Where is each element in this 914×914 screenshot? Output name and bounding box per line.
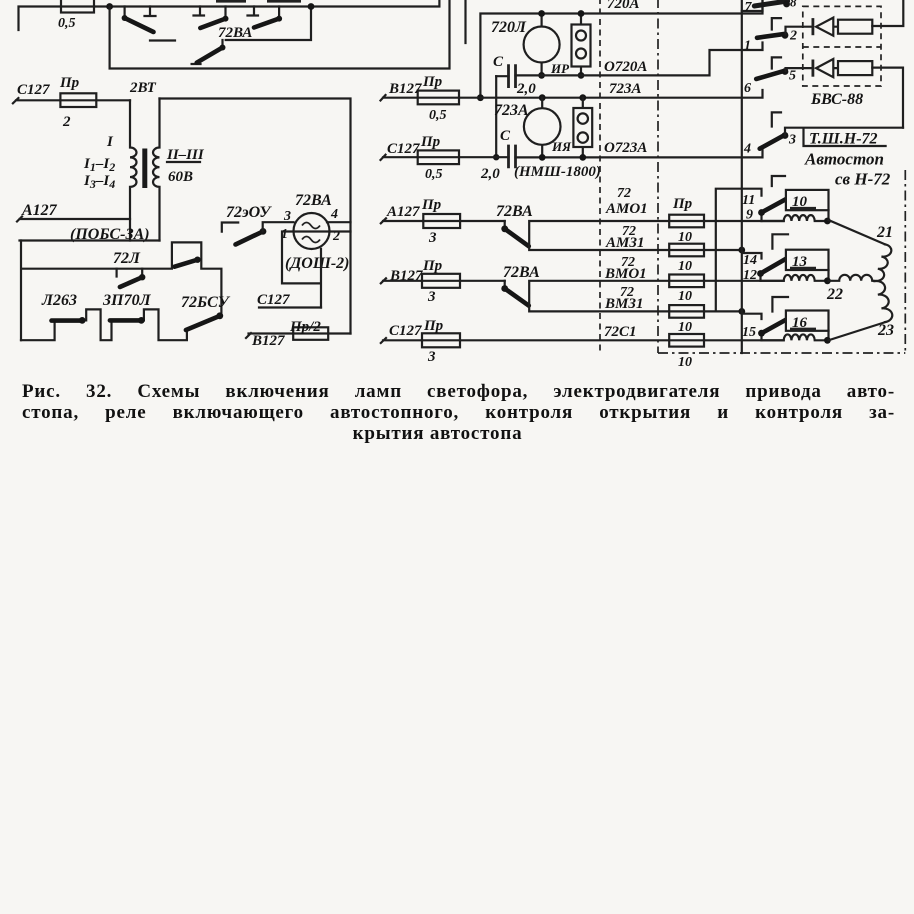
contact 12 (759, 274, 761, 281)
wire lamp pin 4 (327, 221, 351, 223)
relay 723А contact unit ИЯ (582, 98, 584, 158)
svg-text:С127: С127 (387, 141, 420, 157)
wire net 72ВМО1 / 72ВМЗ1 (529, 281, 784, 312)
transformer core (142, 149, 147, 189)
svg-text:Пр: Пр (422, 74, 443, 90)
contact 3 blade (760, 135, 786, 149)
svg-text:2,0: 2,0 (480, 166, 500, 182)
svg-text:720А: 720А (607, 0, 640, 12)
winding box 10 (786, 190, 829, 210)
svg-text:15: 15 (742, 325, 756, 340)
terminal bracket (contact 5 back) (772, 57, 781, 68)
svg-text:72: 72 (617, 186, 631, 201)
contact (detour) (194, 257, 200, 263)
fuse В127 Пр/2 (246, 333, 293, 338)
diode VD1 (812, 18, 815, 35)
svg-text:72БСУ: 72БСУ (181, 294, 231, 311)
svg-text:72ВА: 72ВА (218, 25, 252, 41)
svg-text:2: 2 (789, 29, 797, 44)
svg-text:10: 10 (678, 289, 692, 304)
svg-text:О723А: О723А (604, 140, 647, 156)
wire lamp pin 1 loop (282, 232, 321, 308)
svg-text:22: 22 (826, 286, 843, 303)
svg-text:3: 3 (427, 349, 436, 365)
svg-text:БВС-88: БВС-88 (810, 91, 863, 108)
contact 5 blade (756, 70, 786, 79)
svg-text:72эОУ: 72эОУ (226, 204, 272, 221)
svg-text:1: 1 (744, 39, 751, 54)
svg-text:ВМЗ1: ВМЗ1 (604, 296, 643, 312)
svg-text:Пр: Пр (422, 258, 443, 274)
contact K1 (left) (125, 7, 156, 17)
relay 720Л coil (540, 14, 542, 76)
transformer secondary winding (153, 99, 160, 241)
wire R1 output riser (872, 0, 903, 26)
svg-text:Пр: Пр (421, 197, 442, 213)
svg-text:I: I (106, 134, 114, 150)
resistor R2 (838, 61, 872, 75)
winding box 16 (786, 311, 829, 331)
contact 72Л (117, 269, 143, 278)
svg-text:8: 8 (790, 0, 797, 10)
wire net 723А to pin 6 (459, 90, 763, 98)
svg-text:11: 11 (742, 193, 755, 208)
wire autostop unit boundary (dash-dot) (658, 0, 905, 353)
svg-text:0,5: 0,5 (425, 167, 443, 182)
svg-text:2: 2 (62, 114, 71, 130)
svg-text:В127: В127 (251, 333, 285, 349)
cut-off label remnants (top edge) (216, 0, 301, 3)
contact 72БСУ (186, 316, 220, 330)
contact 8 (cut at top) (754, 1, 787, 6)
wire lamp-group upper rail with detour (21, 241, 221, 341)
svg-text:С: С (500, 128, 511, 144)
fuse В127 Пр 0,5 (381, 95, 418, 101)
svg-text:С127: С127 (389, 323, 422, 339)
wire net О720А to pin 1 (542, 43, 763, 76)
wire transformer bottom rail (20, 239, 160, 241)
svg-text:9: 9 (746, 208, 753, 223)
contact K4 (lower row) (192, 40, 223, 64)
wire to motor terminal 21 (829, 220, 886, 244)
fuse С127 Пр 0,5 (381, 155, 418, 160)
fuse А127 Пр 3 (381, 218, 424, 223)
wire lamp-group bottom rail (stepped) (21, 309, 187, 340)
svg-text:2ВТ: 2ВТ (129, 80, 157, 96)
svg-text:3: 3 (428, 230, 437, 246)
svg-text:(НМШ-1800): (НМШ-1800) (514, 164, 601, 180)
svg-text:II–III: II–III (166, 147, 205, 163)
wire secondary bus to lamp group (160, 99, 351, 334)
motor stator winding 21-22 (874, 244, 891, 281)
inductor (brake coil row 1) (762, 215, 829, 221)
fuse С127 Пр 3 (381, 338, 422, 343)
svg-text:ЗП70Л: ЗП70Л (102, 292, 152, 309)
svg-text:72ВА: 72ВА (295, 192, 332, 209)
contact Л263 (52, 318, 81, 323)
wire cable boundary (dashed) (599, 0, 601, 352)
wire net А127 (17, 217, 130, 222)
svg-text:I3–I4: I3–I4 (83, 173, 115, 191)
wire net 72АМО1 / 72АМЗ1 (529, 221, 784, 250)
terminal bracket (contact 9 back) (772, 176, 785, 186)
svg-text:(ДОШ-2): (ДОШ-2) (285, 255, 349, 272)
capacitor C 2,0 (upper) (509, 64, 516, 88)
svg-text:О720А: О720А (604, 59, 647, 75)
diode VD2 (812, 60, 815, 77)
resistor R1 (838, 20, 872, 34)
motor stator winding 22-23 (874, 281, 892, 322)
svg-text:23: 23 (877, 322, 894, 339)
fuse 10 (row 72С1) (669, 334, 704, 347)
svg-text:С: С (493, 54, 504, 70)
contact K2 72ВА (194, 7, 226, 19)
svg-text:С127: С127 (17, 82, 50, 98)
svg-text:72ВА: 72ВА (503, 264, 540, 281)
node АМЗ1 tie (738, 247, 745, 254)
svg-text:10: 10 (678, 259, 692, 274)
svg-text:Т.Ш.Н-72: Т.Ш.Н-72 (809, 131, 878, 148)
svg-text:Пр: Пр (59, 75, 80, 91)
svg-text:10: 10 (678, 320, 692, 335)
svg-text:С127: С127 (257, 292, 290, 308)
svg-text:60В: 60В (168, 169, 193, 185)
terminal bracket 14 (743, 253, 762, 259)
wire capacitor common leg (495, 76, 497, 157)
svg-text:4: 4 (743, 142, 751, 157)
contact 15 (760, 334, 762, 340)
svg-text:В127: В127 (388, 81, 422, 97)
wire net С127 (lamp) (259, 306, 321, 308)
wire net О723А to pin 4 (516, 150, 763, 157)
lamp transformer ДОШ-2 (72ВА) (294, 213, 330, 249)
node ВМЗ1 tie (738, 308, 745, 315)
contact 2 blade (757, 34, 786, 38)
svg-text:4: 4 (330, 207, 338, 222)
svg-text:10: 10 (678, 355, 692, 370)
svg-text:0,5: 0,5 (429, 108, 447, 123)
svg-text:Автостоп: Автостоп (804, 150, 884, 169)
svg-text:Пр: Пр (423, 318, 444, 334)
svg-text:ИР: ИР (550, 61, 570, 76)
svg-text:12: 12 (743, 268, 757, 283)
svg-text:72ВА: 72ВА (496, 203, 533, 220)
contact ЗП70Л (110, 318, 139, 323)
wire riser to terminal 11 (716, 189, 762, 312)
terminal bracket 15 (743, 314, 762, 319)
svg-text:А127: А127 (386, 204, 420, 220)
wire terminal strip vertical (741, 0, 743, 353)
wire drop and bottom rail of top contact group (110, 0, 466, 69)
node 720А/723А tie (477, 94, 484, 101)
wire R2 output down to valve box (872, 68, 903, 128)
node feed junction (106, 3, 113, 10)
capacitor C 2,0 (lower) (509, 145, 516, 169)
svg-text:723А: 723А (494, 102, 529, 119)
wire mid rails of top contact group (150, 7, 311, 41)
contact 9 (760, 213, 762, 221)
fuse 10 (row ВМЗ1) (669, 305, 704, 318)
svg-text:I1–I2: I1–I2 (83, 156, 115, 174)
svg-text:Л263: Л263 (41, 292, 77, 309)
fuse В127 Пр 3 (381, 278, 422, 283)
pin 7 stub (742, 0, 763, 11)
node top rail junction (308, 3, 315, 10)
transformer ПОБС-3А primary winding (130, 100, 137, 240)
svg-text:В127: В127 (389, 268, 423, 284)
svg-text:723А: 723А (609, 81, 642, 97)
svg-text:3: 3 (788, 133, 796, 148)
contact K3 (248, 7, 280, 19)
wire node 2 to diode (786, 27, 813, 35)
svg-text:2,0: 2,0 (516, 81, 536, 97)
svg-text:6: 6 (744, 81, 751, 96)
inductor (brake coil row 3) (762, 275, 829, 281)
svg-text:Пр: Пр (420, 134, 441, 150)
svg-text:5: 5 (789, 69, 796, 84)
svg-text:3: 3 (427, 289, 436, 305)
wire net 720А (480, 0, 762, 98)
svg-text:АМО1: АМО1 (605, 201, 648, 217)
fuse 10 (row АМЗ1) (669, 244, 704, 257)
relay 723А coil (541, 98, 543, 158)
svg-text:Пр: Пр (672, 196, 693, 212)
svg-text:0,5: 0,5 (58, 16, 76, 31)
svg-text:ВМО1: ВМО1 (604, 266, 647, 282)
svg-text:ИЯ: ИЯ (551, 139, 572, 154)
svg-text:7: 7 (745, 0, 753, 15)
rectifier block БВС-88 (dashed box) (803, 6, 881, 86)
svg-text:АМЗ1: АМЗ1 (605, 235, 644, 251)
fuse С127 Пр 2 (transformer feed) (13, 98, 61, 103)
svg-text:св Н-72: св Н-72 (835, 170, 891, 189)
svg-text:14: 14 (743, 253, 757, 268)
svg-text:72Л: 72Л (113, 250, 141, 267)
fuse Пр 0,5 (top left feed) (61, 0, 94, 13)
fuse 10 (row ВМО1) (669, 275, 704, 288)
wire to motor terminal 23 (829, 322, 886, 340)
winding box 13 (786, 250, 829, 270)
svg-text:720Л: 720Л (491, 19, 527, 36)
wire node 5 to diode (786, 68, 813, 71)
relay 720Л slow-release contact unit ИР (580, 14, 582, 76)
terminal bracket (contact 15 back) (772, 297, 788, 312)
valve Т.Ш.Н-72 (785, 128, 903, 146)
motor stator winding (horizontal to 22) (829, 275, 875, 281)
terminal bracket (contact 12 back) (772, 234, 788, 248)
terminal bracket (contact 8 back) (772, 18, 781, 29)
inductor (brake coil row 5) (762, 334, 829, 340)
wire lamp pin 2 (330, 230, 351, 232)
svg-text:А127: А127 (21, 202, 58, 219)
svg-text:21: 21 (876, 224, 893, 241)
svg-text:3: 3 (283, 209, 291, 224)
wire top-left feed rail (19, 0, 440, 30)
svg-text:Пр/2: Пр/2 (289, 319, 321, 335)
terminal bracket (contact 3 back) (772, 112, 781, 126)
svg-text:72С1: 72С1 (604, 324, 637, 340)
